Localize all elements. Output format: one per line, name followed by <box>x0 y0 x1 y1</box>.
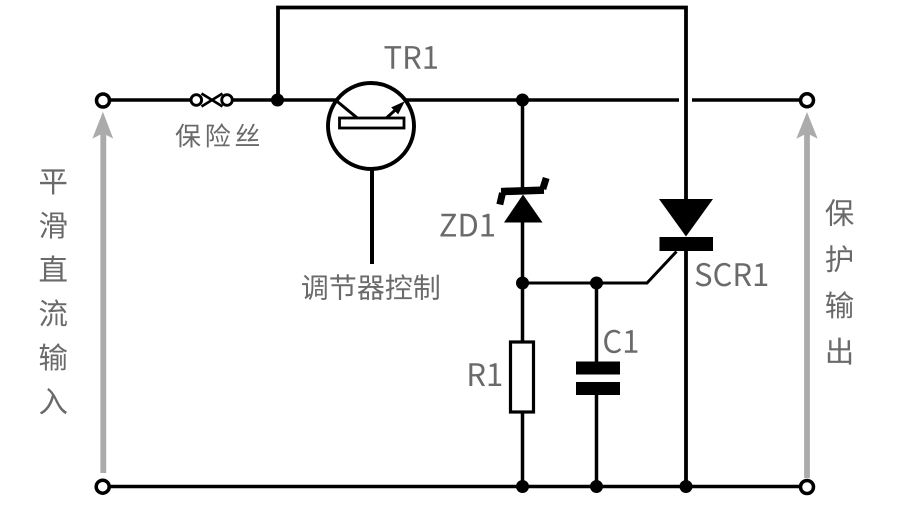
label 平滑直流输入 (smoothed DC input) <box>40 169 68 414</box>
label 保护输出 (protected output) <box>825 199 853 365</box>
junction node zener/gate <box>516 277 529 290</box>
TR1 collector diagonal <box>336 100 358 118</box>
arrowhead right <box>796 112 817 139</box>
junction node bottom SCR <box>680 480 693 493</box>
gray input arrow (left) <box>100 133 106 473</box>
label C1 <box>604 330 637 354</box>
capacitor C1 top plate <box>576 362 620 375</box>
wire C1 top <box>595 283 599 362</box>
thyristor SCR1 anode triangle <box>659 199 713 237</box>
wire gate node to SCR gate <box>523 252 677 284</box>
gray output arrow (right) <box>804 133 810 478</box>
wire rail transistor to gap <box>406 98 679 102</box>
label TR1 <box>385 46 437 69</box>
ZD1 cathode right hook <box>543 178 546 189</box>
wire zener branch top <box>521 100 525 188</box>
label ZD1 <box>440 214 494 237</box>
junction node rail/zener <box>516 94 529 107</box>
wire TR1 base lead <box>370 128 374 264</box>
TR1 emitter arrowhead <box>391 101 405 114</box>
label SCR1 <box>696 263 768 287</box>
TR1 emitter diagonal <box>386 108 397 118</box>
wire top rail left <box>111 98 191 102</box>
transistor TR1 body circle <box>328 83 414 169</box>
capacitor C1 bottom plate <box>576 382 620 395</box>
junction node bottom R1 <box>516 480 529 493</box>
input terminal bottom left <box>96 480 109 493</box>
junction node at fuse/collector <box>271 94 284 107</box>
wire R1 to bottom rail <box>521 412 525 487</box>
fuse 保险丝 symbol <box>191 94 232 107</box>
wire fuse to transistor <box>233 98 337 102</box>
label R1 <box>469 363 501 386</box>
ZD1 cathode left hook <box>500 193 503 205</box>
wire rail gap to output <box>692 98 800 102</box>
output terminal bottom right <box>801 481 814 494</box>
ZD1 anode triangle <box>504 195 543 223</box>
junction node gate/C1 <box>590 277 603 290</box>
label 调节器控制 (regulator control) <box>302 274 439 300</box>
TR1 base bar <box>340 118 405 128</box>
junction node bottom C1 <box>590 480 603 493</box>
output terminal top right <box>801 94 814 107</box>
wire bottom rail <box>111 485 800 489</box>
wire top bypass (collector to SCR anode) <box>278 8 686 200</box>
wire SCR cathode down <box>684 251 688 487</box>
arrowhead left <box>92 112 113 139</box>
wire C1 bottom <box>595 395 599 487</box>
zener diode ZD1 cathode bar <box>501 190 544 192</box>
resistor R1 body <box>511 342 534 412</box>
input terminal top left <box>97 94 110 107</box>
SCR1 cathode bar <box>660 237 714 251</box>
wire zener to node <box>521 221 525 342</box>
label 保险丝 (fuse) <box>176 123 259 147</box>
